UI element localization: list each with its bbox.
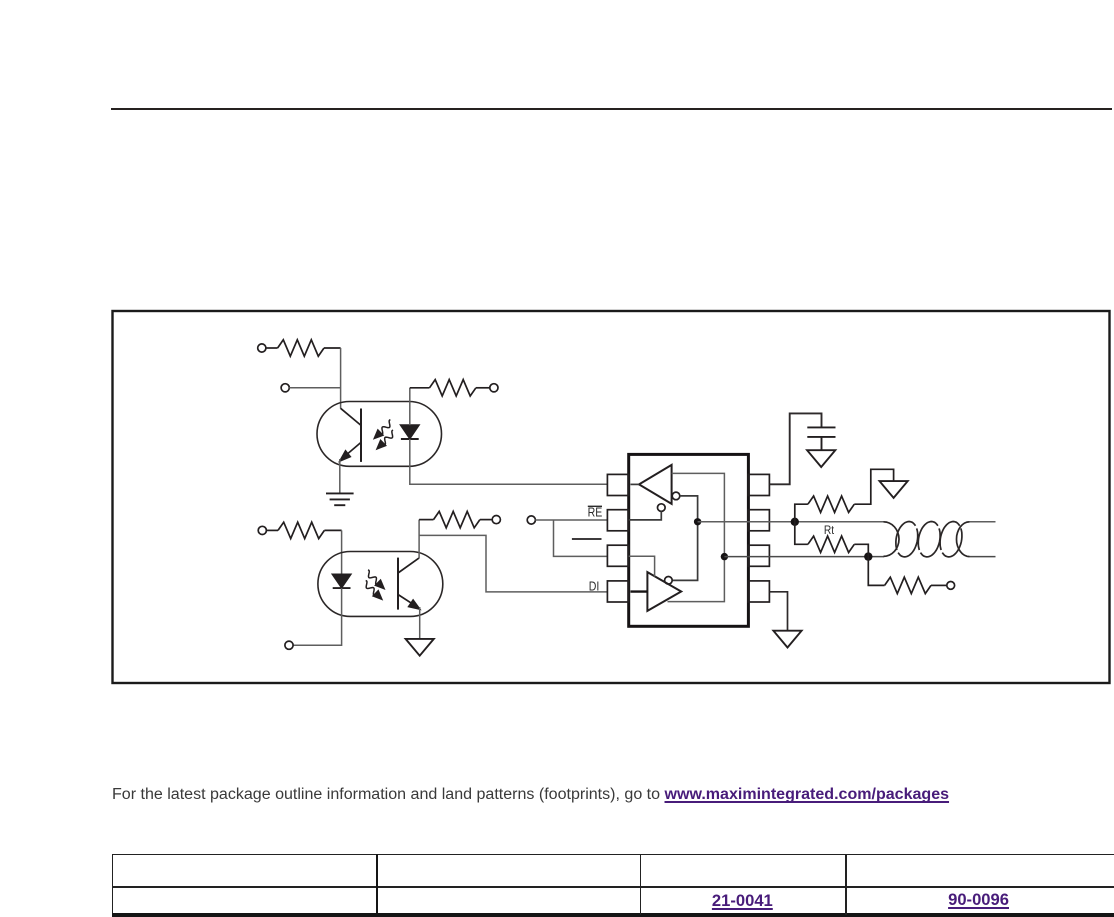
twisted pair cable [884,522,996,557]
terminal T8 [947,582,955,590]
package note text [112,785,949,804]
LED D2 (of U2) [333,574,351,588]
photon arrows into Q2 [368,570,386,590]
earth ground GND1 [326,493,354,505]
doc number 21-0041 [712,891,773,911]
ground triangle GND5 (pin 5) [773,631,801,648]
wire D1 anode up and to R2 [409,388,411,425]
node dot on B net [721,553,728,560]
wire A net (pin 7 to line) [698,521,884,523]
svg-text:Rt: Rt [824,524,835,537]
receiver input bubble [672,492,680,500]
terminal T7 (RE input) [527,516,535,524]
driver amp U3b [647,572,681,611]
pin 4 DI (left) [607,581,628,602]
wire Q2 collector up [418,520,420,559]
wire RE branch to DE pin [554,520,608,556]
pin 1 RO (left) [607,474,628,495]
terminal T2 [281,384,289,392]
terminal T1 [258,344,266,352]
transistor Q2 (phototransistor of U2) [398,558,419,610]
capacitor C1 [807,427,835,450]
transceiver U3 body [629,454,749,626]
resistor R4 [419,511,492,527]
svg-text:RE: RE [588,506,603,520]
node dot B [864,552,872,560]
optocoupler U2 body [318,552,443,617]
ground triangle GND4 (R5) [880,481,908,498]
label DI [589,579,600,593]
wire D2 cathode to terminal T5 [293,588,342,645]
DE overline dash [572,538,602,540]
resistor R3 [266,522,341,538]
top horizontal rule [111,108,1112,110]
transistor Q1 (phototransistor of U1) [341,408,361,462]
optocoupler U1 body [317,402,442,467]
node dot on A net [694,518,701,525]
wire R3 to LED D2 anode [341,530,343,574]
pin 8 (right top) [748,474,769,495]
LED D1 (of U1) [401,425,419,439]
wire B net (pin 6 to line) [724,556,884,558]
resistor R5 (pullup on A) [795,469,894,522]
terminal T3 [490,384,498,392]
wire pin 8 to bypass capacitor [769,413,821,484]
wire input bubble to node, down to driver enable [672,496,697,581]
driver enable bubble [665,577,673,585]
photon arrows into Q1 [373,420,391,440]
resistor Rt [795,522,869,557]
wire R1 to opto1 collector [340,348,342,409]
pin 2 RE (left) [607,510,628,531]
receiver enable bubble [658,504,666,512]
figure frame (box) [113,311,1110,683]
ground triangle GND3 (capacitor) [807,450,835,467]
svg-text:DI: DI [589,579,600,593]
wire Q2 emitter to ground triangle [419,607,421,639]
wire pin 5 to ground [769,592,787,631]
wire RO pin to receiver output [631,483,640,485]
wire DE pin to driver enable edge [629,556,655,576]
resistor R2 [410,380,490,396]
bottom table [112,854,1114,915]
wire DI pin to driver input [631,590,648,592]
doc number 90-0096 [948,890,1009,910]
pin 3 DE (left) [607,545,628,566]
terminal T4 [258,526,266,534]
terminal T5 [285,641,293,649]
wire Q1 emitter to ground [339,459,341,493]
pin 5 GND (right) [748,581,769,602]
wire receiver input net to driver output edge [668,473,725,601]
resistor R6 [868,557,947,594]
receiver amp U3a [639,465,672,504]
wire Q2 collector branch to DI pin [419,535,607,592]
wire T2 to collector line [289,387,340,389]
wire T7 to RE pin [535,519,607,521]
label Rt [824,524,835,537]
pin 6 B (right) [748,545,769,566]
pin 7 A (right) [748,510,769,531]
terminal T6 [492,516,500,524]
node dot A [791,518,799,526]
resistor R1 [266,340,341,356]
ground triangle GND2 [406,639,434,656]
wire RE pin to enable bubble [629,511,662,520]
label RE with overline [588,506,603,520]
wire D1 cathode to RO pin [410,439,608,484]
